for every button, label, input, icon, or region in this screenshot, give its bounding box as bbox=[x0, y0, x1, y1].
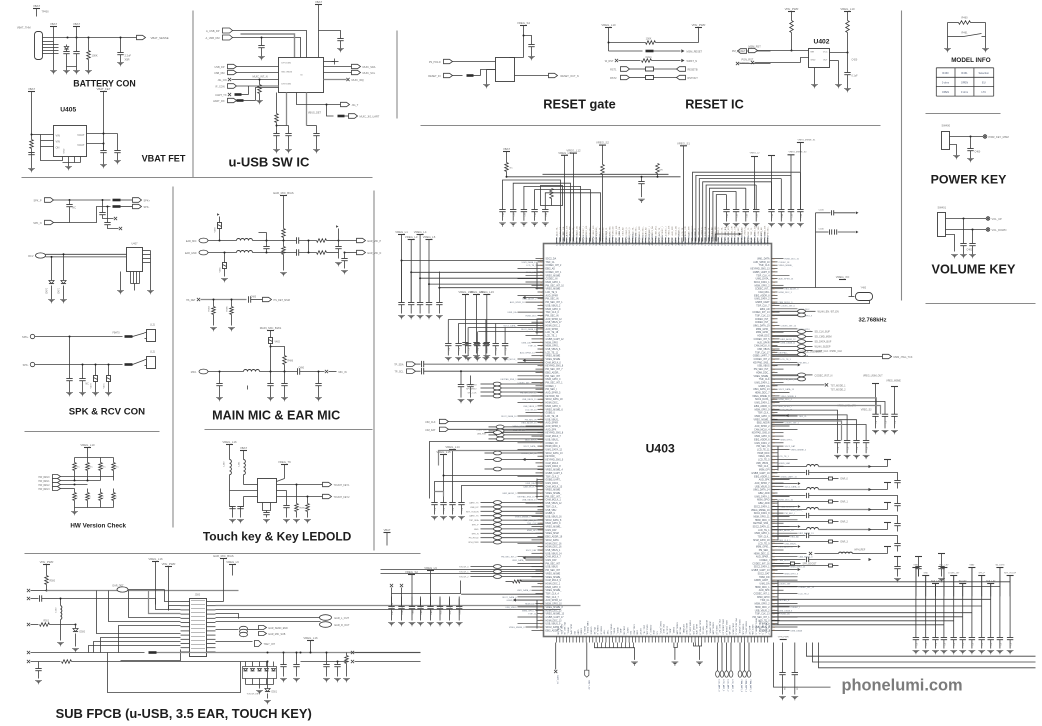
power symbol VREG_L4 bbox=[417, 234, 424, 236]
resistor R502 far right bbox=[346, 653, 348, 656]
svg-text:60: 60 bbox=[773, 332, 775, 334]
svg-text:EBI2_ADDR_16: EBI2_ADDR_16 bbox=[521, 422, 537, 425]
wire touch outputs bbox=[277, 484, 323, 486]
svg-text:TA_nCHG: TA_nCHG bbox=[995, 564, 1005, 567]
svg-text:LCD_TE_: LCD_TE_ bbox=[642, 625, 644, 635]
capacitor top left 502 bbox=[499, 209, 505, 211]
svg-text:SDC2_DATA_: SDC2_DATA_ bbox=[523, 445, 537, 448]
capacitor C460 power key bbox=[970, 137, 972, 149]
svg-text:WRST_N: WRST_N bbox=[687, 60, 698, 63]
ground U407 right bbox=[147, 290, 154, 292]
pin field U403 top edge bbox=[556, 238, 558, 244]
svg-text:SDC2_DATA_13: SDC2_DATA_13 bbox=[779, 388, 795, 391]
svg-text:LCD_TE_1: LCD_TE_1 bbox=[781, 359, 792, 361]
wire ear row2 bbox=[208, 252, 237, 254]
capacitor C495 right bbox=[286, 491, 288, 506]
ground RN500 bbox=[256, 690, 263, 692]
svg-text:TSIF_CLK_4: TSIF_CLK_4 bbox=[546, 594, 560, 596]
svg-text:MSM_GPIO_0: MSM_GPIO_0 bbox=[546, 379, 562, 381]
power symbol cb2 bbox=[427, 570, 434, 572]
svg-text:TSIF_CL: TSIF_CL bbox=[799, 416, 808, 418]
capacitor right1 894 bbox=[891, 413, 897, 415]
svg-text:TSIF_CLK_: TSIF_CLK_ bbox=[758, 537, 771, 539]
svg-text:NC: NC bbox=[73, 207, 77, 210]
svg-text:41: 41 bbox=[540, 315, 542, 317]
svg-text:SCL_1.8V: SCL_1.8V bbox=[441, 605, 443, 615]
resistor hw bottom R497 bbox=[113, 489, 115, 493]
svg-text:SCL_1.8V: SCL_1.8V bbox=[450, 605, 452, 615]
x terminal sub far right bbox=[351, 651, 354, 654]
svg-text:KEYPAD_: KEYPAD_ bbox=[595, 226, 598, 236]
svg-text:USB_VBUS_: USB_VBUS_ bbox=[785, 543, 798, 545]
IC U406 u-USB switch body bbox=[279, 58, 324, 93]
svg-text:95: 95 bbox=[773, 392, 775, 394]
svg-text:BATT_ID: BATT_ID bbox=[588, 681, 591, 690]
svg-text:MSM_GPIO_: MSM_GPIO_ bbox=[781, 439, 794, 441]
ground out cap 1 bbox=[100, 164, 107, 166]
svg-text:EBI2_ADDR_3: EBI2_ADDR_3 bbox=[785, 288, 800, 291]
svg-text:USB_VB: USB_VB bbox=[557, 626, 559, 635]
audio filter row 5 bbox=[772, 553, 807, 555]
svg-text:HDMI_DDC_1: HDMI_DDC_1 bbox=[546, 326, 561, 328]
inductor L500 vertical bbox=[61, 606, 62, 620]
ground R481 bbox=[280, 272, 287, 274]
svg-text:VREG_MS: VREG_MS bbox=[758, 456, 770, 458]
wire U402 bottom left bbox=[814, 68, 816, 85]
ground R485 bbox=[228, 327, 235, 329]
svg-text:23: 23 bbox=[773, 597, 775, 599]
wire cb bars bbox=[411, 575, 413, 607]
svg-text:93: 93 bbox=[540, 563, 542, 565]
capacitor top right 726 bbox=[726, 195, 728, 210]
svg-text:49: 49 bbox=[773, 319, 775, 321]
svg-text:MSM_GPIO_9: MSM_GPIO_9 bbox=[755, 436, 771, 438]
svg-text:SDC2_DATA: SDC2_DATA bbox=[546, 539, 560, 542]
power symbol touch mid bbox=[281, 464, 288, 466]
svg-text:MSM_GPIO_2: MSM_GPIO_2 bbox=[755, 604, 771, 606]
wire ear row1 bbox=[208, 240, 237, 242]
resistor hw top R491 bbox=[87, 458, 89, 463]
svg-text:CAM_MCLK: CAM_MCLK bbox=[546, 462, 559, 465]
big bead stack left bbox=[494, 501, 502, 505]
resistor R482 row1 bbox=[317, 239, 327, 243]
svg-text:87: 87 bbox=[540, 419, 542, 421]
svg-text:TSIF_CL: TSIF_CL bbox=[748, 227, 750, 236]
pin field U403 bottom edge bbox=[556, 637, 558, 643]
svg-text:12: 12 bbox=[773, 309, 775, 311]
svg-text:IF_CON: IF_CON bbox=[215, 86, 224, 89]
svg-text:CAM_MCL: CAM_MCL bbox=[560, 624, 563, 635]
svg-text:VBAT: VBAT bbox=[50, 22, 57, 26]
svg-text:79: 79 bbox=[540, 369, 542, 371]
svg-text:LCD_TE_18: LCD_TE_18 bbox=[546, 332, 559, 334]
node junction on VBAT rail bbox=[67, 37, 69, 39]
svg-text:31: 31 bbox=[773, 449, 775, 451]
svg-text:TSIF: TSIF bbox=[603, 630, 605, 635]
power symbol VBAT tap 2 bbox=[73, 26, 80, 28]
svg-text:KEYPAD_SNS: KEYPAD_SNS bbox=[705, 620, 708, 635]
svg-text:35: 35 bbox=[773, 603, 775, 605]
svg-text:AUD_SPKR_: AUD_SPKR_ bbox=[546, 328, 560, 331]
svg-text:61: 61 bbox=[773, 439, 775, 441]
resistor R433 vertical bbox=[276, 93, 278, 114]
x terminal mic out bbox=[325, 370, 328, 373]
svg-text:VREG_L10: VREG_L10 bbox=[80, 443, 95, 447]
svg-text:WLAN_SLEEP: WLAN_SLEEP bbox=[815, 346, 831, 349]
svg-text:VOUT: VOUT bbox=[77, 133, 85, 137]
svg-text:26: 26 bbox=[540, 332, 542, 334]
capacitor C503 pair bbox=[296, 653, 298, 665]
svg-text:70: 70 bbox=[773, 282, 775, 284]
svg-text:HDMI_DDC: HDMI_DDC bbox=[757, 453, 769, 455]
x terminal hs det bbox=[197, 298, 200, 301]
connector speaker box 1 bbox=[147, 330, 156, 342]
svg-text:82: 82 bbox=[773, 463, 775, 465]
svg-text:RESET_OUT_N: RESET_OUT_N bbox=[561, 75, 579, 78]
ground power key bbox=[953, 155, 960, 157]
svg-text:29: 29 bbox=[773, 533, 775, 535]
resistor R484 drop bbox=[213, 300, 215, 307]
capacitor bank3 990.2 bbox=[990, 584, 992, 638]
svg-text:AUD_SPKR_10: AUD_SPKR_10 bbox=[753, 261, 770, 264]
audio filter row 3 arrow2 bbox=[798, 525, 801, 528]
power symbol hw check bbox=[84, 447, 91, 449]
svg-text:SDC2_DA: SDC2_DA bbox=[674, 226, 677, 236]
capacitor C492 bbox=[232, 507, 234, 509]
svg-text:46: 46 bbox=[540, 309, 542, 311]
svg-text:60: 60 bbox=[773, 329, 775, 331]
svg-text:UIM1_DATA_4: UIM1_DATA_4 bbox=[725, 620, 728, 635]
power symbol VBAT tap 1 bbox=[50, 26, 57, 28]
resistor block spk row1 bbox=[113, 199, 121, 202]
wire ear bias down bbox=[283, 196, 285, 229]
svg-text:EBI2_ADDR: EBI2_ADDR bbox=[757, 422, 770, 425]
wire top trunk 1 bbox=[507, 176, 681, 178]
wire bottom pin 1 bbox=[286, 93, 288, 126]
wire top rail down bbox=[318, 5, 320, 58]
svg-text:AUD_SPK: AUD_SPK bbox=[759, 589, 770, 592]
wire right long flag row bbox=[772, 356, 883, 358]
svg-text:AUD_SPKR_12: AUD_SPKR_12 bbox=[546, 318, 563, 321]
svg-text:PM_SEC_INT_: PM_SEC_INT_ bbox=[546, 496, 562, 498]
svg-text:10: 10 bbox=[773, 630, 775, 632]
svg-text:D500: D500 bbox=[80, 632, 86, 634]
wire bl long rows bbox=[461, 593, 543, 595]
svg-text:17: 17 bbox=[773, 550, 775, 552]
svg-text:EBI2_AD: EBI2_AD bbox=[728, 626, 731, 635]
power symbol bank3 935 bbox=[932, 583, 939, 585]
capacitor C502 pair bbox=[283, 653, 285, 665]
svg-text:12: 12 bbox=[773, 613, 775, 615]
capacitor C441 mid bbox=[641, 177, 643, 182]
svg-text:67: 67 bbox=[773, 389, 775, 391]
capacitor left1 401 bbox=[401, 261, 403, 303]
ground C430 bbox=[258, 56, 265, 58]
svg-text:HDMI_DDC_2: HDMI_DDC_2 bbox=[755, 607, 770, 609]
wire cross connect bbox=[308, 241, 310, 253]
power symbol cb1 bbox=[408, 574, 415, 576]
arrow into left edge 1 bbox=[523, 296, 526, 299]
svg-text:78: 78 bbox=[540, 345, 542, 347]
capacitor C440 bbox=[524, 36, 532, 45]
svg-text:56: 56 bbox=[773, 359, 775, 361]
svg-text:23: 23 bbox=[540, 275, 542, 277]
svg-text:14: 14 bbox=[540, 496, 542, 498]
svg-text:TP_SCL: TP_SCL bbox=[394, 371, 404, 374]
capacitor left4 452 bbox=[449, 502, 455, 504]
svg-text:VPH_PWR: VPH_PWR bbox=[468, 542, 479, 544]
capacitor C505 far right bbox=[337, 662, 339, 665]
svg-text:VBAT: VBAT bbox=[28, 87, 35, 91]
svg-text:19: 19 bbox=[540, 258, 542, 260]
node junction usb bbox=[261, 37, 263, 39]
capacitor C462 volume bbox=[972, 230, 974, 244]
audio filter row 1 right cap bbox=[861, 473, 898, 481]
wire top trunk 2 bbox=[543, 173, 669, 175]
svg-text:EAR_MIC_N: EAR_MIC_N bbox=[368, 252, 382, 255]
svg-text:VPH_PWR: VPH_PWR bbox=[785, 7, 799, 11]
svg-text:PM_SEC_: PM_SEC_ bbox=[759, 550, 770, 552]
audio filter row 3 inductor bbox=[772, 509, 807, 511]
ground C462 bbox=[969, 254, 976, 256]
svg-text:UIM1_DATA_1: UIM1_DATA_1 bbox=[754, 402, 770, 405]
svg-text:HW_REV2: HW_REV2 bbox=[38, 485, 50, 487]
svg-text:82: 82 bbox=[540, 546, 542, 548]
resistor R495 bbox=[296, 485, 298, 504]
svg-text:MSM_GPI: MSM_GPI bbox=[759, 470, 770, 472]
wire sub long row bbox=[27, 651, 30, 654]
svg-text:KEYPAD_SNS_8: KEYPAD_SNS_8 bbox=[546, 365, 564, 368]
wire right edge bus extra 1 bbox=[772, 406, 881, 415]
svg-text:16: 16 bbox=[540, 624, 542, 626]
ground U402 out bbox=[835, 84, 842, 86]
svg-text:L490: L490 bbox=[224, 461, 226, 467]
svg-text:CAM_MCLK_6: CAM_MCLK_6 bbox=[754, 345, 770, 348]
svg-text:37: 37 bbox=[773, 593, 775, 595]
connector power key body bbox=[942, 132, 950, 150]
capacitor C433 bbox=[288, 126, 290, 134]
power symbol bottom right bbox=[780, 639, 787, 641]
svg-text:HDMI_DDC: HDMI_DDC bbox=[526, 316, 537, 318]
svg-text:VOLUME KEY: VOLUME KEY bbox=[932, 263, 1016, 277]
svg-text:60: 60 bbox=[540, 603, 542, 605]
svg-text:AUD_SPKR_7: AUD_SPKR_7 bbox=[755, 482, 771, 485]
svg-text:UIM1_DATA_2: UIM1_DATA_2 bbox=[754, 298, 770, 301]
ground V471 bbox=[105, 392, 112, 394]
svg-text:AUD_SPKR_13: AUD_SPKR_13 bbox=[779, 278, 795, 281]
svg-text:POWER KEY: POWER KEY bbox=[931, 173, 1007, 187]
svg-text:VPH_PWR: VPH_PWR bbox=[778, 637, 789, 639]
svg-text:MSM_GPIO_3: MSM_GPIO_3 bbox=[755, 416, 771, 418]
svg-text:RESET IC: RESET IC bbox=[685, 98, 744, 112]
svg-text:PM_SE: PM_SE bbox=[679, 627, 681, 635]
wire arrow row top bbox=[715, 233, 738, 235]
svg-text:HW_REV1: HW_REV1 bbox=[38, 481, 50, 483]
wire power key gnd pin bbox=[950, 145, 957, 156]
svg-text:VREG_MSME_5: VREG_MSME_5 bbox=[791, 450, 807, 452]
svg-text:HDMI_DDC_: HDMI_DDC_ bbox=[546, 403, 560, 405]
svg-text:PM_SEC_: PM_SEC_ bbox=[642, 225, 644, 235]
svg-text:SPK & RCV CON: SPK & RCV CON bbox=[69, 407, 145, 418]
svg-text:DP2 DM2: DP2 DM2 bbox=[282, 84, 292, 86]
signal flag spk row1 bbox=[45, 198, 54, 203]
svg-text:LCD_TE_9: LCD_TE_9 bbox=[546, 292, 558, 294]
capacitor left3 476.8 bbox=[476, 332, 478, 344]
wire main mic row bbox=[208, 371, 244, 373]
svg-text:72: 72 bbox=[773, 536, 775, 538]
capacitor left4 461 bbox=[458, 502, 464, 504]
svg-text:VREG_L16: VREG_L16 bbox=[148, 557, 163, 561]
svg-text:MSM_GPIO_1: MSM_GPIO_1 bbox=[755, 533, 771, 535]
wire diode loop bbox=[67, 61, 77, 67]
svg-text:CODEC_INT_2: CODEC_INT_2 bbox=[546, 265, 563, 267]
capacitor C430 on usb line bbox=[261, 38, 263, 46]
svg-text:VREG_L23: VREG_L23 bbox=[480, 290, 495, 294]
arrow into left edge 4 bbox=[523, 556, 526, 559]
inductor L481 row2 bbox=[237, 251, 253, 253]
varistor V482 bbox=[269, 338, 273, 344]
svg-text:47: 47 bbox=[540, 493, 542, 495]
power symbol right bank1 b bbox=[891, 386, 898, 388]
svg-text:VBAT: VBAT bbox=[383, 528, 390, 532]
svg-text:MUIC_SCL: MUIC_SCL bbox=[363, 72, 376, 75]
svg-text:Y400: Y400 bbox=[861, 287, 867, 290]
svg-text:VBAT_THM: VBAT_THM bbox=[17, 26, 31, 30]
svg-text:CODEC_INT_13: CODEC_INT_13 bbox=[752, 312, 770, 314]
svg-text:55: 55 bbox=[540, 412, 542, 414]
svg-text:CODEC_INT_16: CODEC_INT_16 bbox=[752, 563, 770, 565]
power symbol VREG_L23 bbox=[483, 294, 490, 296]
svg-text:TSIF_CL: TSIF_CL bbox=[760, 600, 770, 602]
svg-text:TSIF_CLK_0: TSIF_CLK_0 bbox=[546, 312, 560, 314]
svg-text:CODEC_INT_: CODEC_INT_ bbox=[755, 322, 770, 324]
capacitor C401 battery bbox=[73, 51, 79, 53]
wire left bus rows bbox=[402, 260, 544, 262]
svg-text:PM_SEC_: PM_SEC_ bbox=[662, 624, 664, 635]
svg-text:USB_VBUS_5: USB_VBUS_5 bbox=[755, 486, 771, 488]
ground cap C401 bbox=[73, 70, 80, 72]
svg-text:SUB FPCB (u-USB, 3.5 EAR, TOUC: SUB FPCB (u-USB, 3.5 EAR, TOUCH KEY) bbox=[56, 706, 312, 721]
svg-text:SPK-: SPK- bbox=[144, 206, 150, 209]
audio filter row 1 arrow bbox=[869, 465, 872, 468]
svg-text:OPEN: OPEN bbox=[961, 81, 968, 85]
svg-text:LCD_TE_: LCD_TE_ bbox=[659, 226, 661, 236]
wire bead to flags bbox=[248, 629, 259, 631]
svg-text:C460: C460 bbox=[975, 151, 981, 154]
svg-text:TSP_SDA: TSP_SDA bbox=[469, 519, 479, 522]
svg-text:SDC2_DA: SDC2_DA bbox=[651, 226, 654, 236]
svg-text:HW_REV3: HW_REV3 bbox=[38, 489, 50, 491]
svg-text:MSM_G: MSM_G bbox=[599, 626, 601, 634]
capacitor C491 drop right bbox=[318, 372, 320, 384]
svg-text:UART_RX: UART_RX bbox=[213, 100, 225, 103]
svg-text:CODEC_INT: CODEC_INT bbox=[779, 584, 792, 586]
svg-text:VREG_MSME: VREG_MSME bbox=[546, 289, 561, 291]
svg-text:MSM_GPI: MSM_GPI bbox=[685, 226, 687, 236]
svg-text:MSM_GPIO_: MSM_GPIO_ bbox=[791, 510, 804, 512]
crystal series cap row 2 bbox=[816, 231, 829, 233]
resistor network RN500 bbox=[245, 662, 247, 667]
capacitor C434 bbox=[316, 126, 318, 134]
svg-text:LTC: LTC bbox=[981, 90, 986, 94]
svg-text:VREG_MSME_6: VREG_MSME_6 bbox=[546, 409, 564, 411]
wire bottom comb bus 2 bbox=[674, 643, 677, 648]
capacitor br 918 bbox=[915, 566, 921, 568]
capacitor bank3 943.4 bbox=[943, 568, 945, 638]
svg-text:SPK+: SPK+ bbox=[144, 200, 151, 203]
capacitor left4 434 bbox=[431, 502, 437, 504]
svg-text:PM_SEC_: PM_SEC_ bbox=[768, 225, 770, 235]
ground D470 bbox=[48, 299, 55, 301]
bead stack left bl bbox=[494, 565, 502, 569]
power symbol top mid2 bbox=[570, 152, 577, 154]
capacitor left2 486.3 bbox=[484, 342, 490, 344]
svg-text:R460: R460 bbox=[962, 17, 969, 20]
ground battery thermistor bbox=[50, 70, 57, 72]
pin stub right bbox=[324, 61, 335, 63]
audio filter row 1 bottom tap bbox=[772, 478, 829, 480]
svg-text:SDC2_DATA_18: SDC2_DATA_18 bbox=[546, 398, 564, 401]
svg-text:PM_SEC_INT_1: PM_SEC_INT_1 bbox=[546, 383, 564, 385]
signal flag gate input 1 bbox=[444, 59, 453, 63]
svg-text:R486: R486 bbox=[288, 361, 294, 363]
audio filter row 2 arrow2 bbox=[798, 505, 801, 508]
connector battery connector body bbox=[35, 32, 43, 60]
svg-text:EAR_R_OUT: EAR_R_OUT bbox=[335, 624, 350, 627]
connector flag main mic bbox=[199, 369, 208, 374]
svg-text:VREG_TK: VREG_TK bbox=[278, 460, 291, 464]
svg-text:39: 39 bbox=[773, 312, 775, 314]
capacitor left2 476 bbox=[473, 342, 479, 344]
wire from VBAT tap down bbox=[53, 27, 55, 42]
wire VBAT down to FET bbox=[31, 92, 33, 135]
resistor R440 series bbox=[467, 74, 474, 77]
capacitor top left 534 bbox=[531, 209, 537, 211]
svg-text:VREG_S3: VREG_S3 bbox=[861, 410, 872, 412]
resistor R447 wl bbox=[513, 580, 522, 583]
svg-text:MSM_GPIO_9: MSM_GPIO_9 bbox=[546, 523, 562, 525]
IC U402 body bbox=[809, 49, 830, 68]
svg-text:GSBI5_UART_: GSBI5_UART_ bbox=[754, 579, 770, 582]
wire ON pin loop bbox=[41, 147, 63, 161]
svg-text:CODEC_I: CODEC_I bbox=[759, 560, 770, 562]
svg-text:HDMI_DD: HDMI_DD bbox=[692, 625, 694, 635]
signal flag left row B bbox=[407, 369, 416, 374]
svg-text:EBI2_ADDR_12: EBI2_ADDR_12 bbox=[781, 338, 797, 341]
svg-text:UIM1_DATA_8: UIM1_DATA_8 bbox=[546, 465, 562, 468]
svg-text:LCD_TE_2: LCD_TE_2 bbox=[768, 624, 770, 636]
svg-text:LCD_MIPI_3: LCD_MIPI_3 bbox=[731, 680, 733, 693]
svg-text:MUIC_IRQ: MUIC_IRQ bbox=[352, 79, 364, 82]
svg-text:EAR_MIC: EAR_MIC bbox=[186, 240, 197, 243]
svg-text:MSM_GPIO: MSM_GPIO bbox=[546, 342, 559, 344]
svg-text:VCC: VCC bbox=[823, 52, 828, 54]
svg-text:AUD_: AUD_ bbox=[669, 629, 672, 636]
svg-text:AUD_SPK: AUD_SPK bbox=[688, 225, 691, 235]
svg-text:HS_DET: HS_DET bbox=[959, 581, 968, 583]
power symbol reset ic right bbox=[695, 27, 702, 29]
wire J500 left pins bbox=[181, 601, 190, 603]
svg-text:PM_SEC_INT: PM_SEC_INT bbox=[546, 563, 561, 565]
wire sub mid rails 2 bbox=[223, 559, 225, 602]
svg-text:HDMI_DD: HDMI_DD bbox=[759, 577, 770, 579]
svg-text:29: 29 bbox=[773, 399, 775, 401]
svg-text:J500: J500 bbox=[195, 594, 201, 597]
svg-text:HDMI_DDC_16: HDMI_DDC_16 bbox=[546, 543, 563, 545]
power symbol VREG_L5 bbox=[426, 239, 433, 241]
svg-text:LCD_TE_: LCD_TE_ bbox=[557, 226, 559, 236]
wire U402 outputs bbox=[830, 52, 848, 54]
